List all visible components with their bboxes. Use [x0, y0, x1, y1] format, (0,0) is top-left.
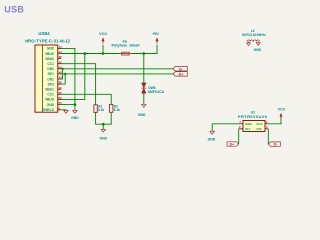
wire R1 R2 bottoms to ground	[96, 112, 112, 124]
svg-text:D+: D+	[179, 72, 184, 76]
svg-text:CC1: CC1	[47, 62, 54, 66]
ground below R1 R2	[100, 129, 108, 140]
svg-text:GND: GND	[71, 116, 79, 120]
connector pin stubs	[58, 48, 61, 109]
svg-text:Polyfuse_Small: Polyfuse_Small	[111, 43, 139, 47]
svg-text:GND: GND	[254, 48, 262, 52]
wire ground drop from resistor join	[102, 124, 104, 129]
wire SHIELD	[61, 109, 66, 111]
ground at ferrite right	[254, 42, 262, 53]
U1 pin numbers	[239, 120, 268, 129]
svg-text:VBUS: VBUS	[45, 52, 55, 56]
U1 pin stubs	[239, 124, 269, 129]
svg-text:SMF5.0CA: SMF5.0CA	[148, 90, 165, 94]
power flag +5V	[152, 32, 159, 44]
junction dots	[61, 52, 145, 125]
svg-text:VCC: VCC	[256, 122, 263, 126]
svg-text:GND: GND	[47, 103, 55, 107]
wire CC2 to R2	[61, 94, 111, 104]
svg-text:VBUS: VBUS	[45, 98, 55, 102]
fuse F0 Polyfuse_Small	[111, 40, 139, 55]
svg-text:DN2: DN2	[47, 67, 54, 71]
svg-text:GND: GND	[138, 113, 146, 117]
ground below TVS	[138, 104, 146, 117]
wire VBUS link vertical	[61, 54, 85, 100]
svg-text:USB4: USB4	[38, 31, 50, 36]
svg-text:IO2: IO2	[257, 127, 262, 131]
svg-text:VCC: VCC	[277, 107, 285, 111]
svg-text:5.1k: 5.1k	[98, 108, 104, 112]
ground at ferrite left	[246, 42, 250, 46]
wire PRTR pin1 to ground	[212, 124, 239, 131]
svg-text:USB: USB	[4, 4, 24, 14]
wire CC1 to R1	[61, 64, 96, 105]
connector USB4 body	[35, 45, 58, 112]
wire TVS branch from rail	[143, 54, 145, 84]
wire GND pin12	[61, 105, 75, 110]
connector pin numbers	[59, 46, 63, 110]
global label D+ right (pointing right)	[227, 142, 239, 147]
svg-text:+5V: +5V	[152, 32, 159, 36]
svg-text:PRTR5V0U2X: PRTR5V0U2X	[238, 114, 267, 119]
global label D- left	[173, 67, 187, 72]
svg-text:SBU2: SBU2	[45, 57, 54, 61]
svg-text:CC2: CC2	[47, 93, 54, 97]
svg-text:DN1: DN1	[47, 77, 54, 81]
global label D- right (pointing left)	[268, 142, 280, 147]
TVS diode DW5 SMF5.0CA	[141, 83, 164, 94]
svg-text:VCC: VCC	[99, 32, 107, 36]
wire DN1 tie vertical	[61, 69, 63, 79]
svg-text:GND: GND	[47, 47, 55, 51]
svg-text:SBU1: SBU1	[45, 88, 54, 92]
ESD protection U1 PRTR5V0U2X	[238, 110, 267, 131]
resistor R1	[94, 105, 104, 113]
power flag VCC top	[99, 32, 107, 44]
ground at PRTR pin1	[208, 131, 216, 141]
ground at SHIELD	[64, 110, 69, 113]
wire TVS to ground	[143, 93, 145, 104]
svg-text:IO1: IO1	[245, 127, 250, 131]
wire VCC stem	[102, 45, 104, 54]
wire DN2 / D-	[61, 68, 173, 70]
svg-text:D+: D+	[229, 143, 234, 147]
svg-text:HRO-TYPE-C-31-M-12: HRO-TYPE-C-31-M-12	[25, 39, 71, 44]
ferrite bead L2 60R@100MHz	[242, 29, 266, 41]
svg-text:60R@100MHz: 60R@100MHz	[242, 33, 266, 37]
wire PRTR pin3 to D- label	[267, 129, 269, 144]
wire DP2 tie vertical	[61, 74, 65, 84]
global label D+ left	[173, 72, 187, 77]
svg-text:5.1k: 5.1k	[114, 108, 120, 112]
wire PRTR pin2 to D+ label	[238, 129, 240, 144]
wire DP1 / D+	[61, 73, 173, 75]
wire VBUS rail through fuse to +5V	[61, 53, 120, 55]
ground at connector GND	[71, 110, 79, 119]
power flag VCC right	[277, 107, 285, 118]
wire GND pin1 right and down	[61, 48, 75, 104]
svg-text:SHIELD: SHIELD	[42, 108, 55, 112]
wire PRTR pin4 to VCC	[269, 118, 281, 124]
svg-text:DP2: DP2	[48, 82, 55, 86]
resistor R2	[110, 104, 121, 112]
svg-text:GND: GND	[208, 137, 216, 141]
svg-text:GND: GND	[100, 137, 108, 141]
connector pin names	[42, 47, 55, 112]
svg-text:DP1: DP1	[48, 72, 55, 76]
svg-text:GND: GND	[245, 122, 253, 126]
